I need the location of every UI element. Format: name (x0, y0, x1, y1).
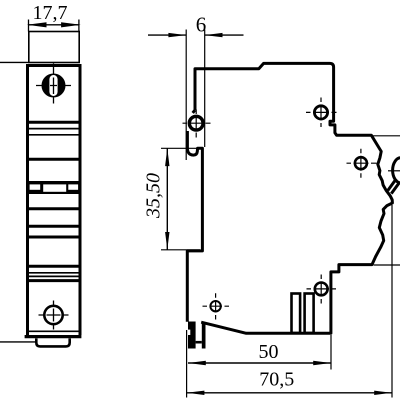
ear screw hole (189, 116, 203, 130)
section line 11 (29, 279, 79, 282)
handle centerline (388, 170, 400, 172)
dimension 70,5 extension right (391, 205, 393, 398)
toggle window middle (43, 184, 66, 191)
DIN clip white notch (185, 330, 190, 335)
top mounting hole (314, 106, 327, 119)
DIN clip latch left bar (188, 322, 196, 349)
dimension 35,50 line (166, 148, 168, 250)
middle hole (355, 157, 367, 169)
wire leader line top-left (0, 61, 28, 63)
section line 4 (29, 158, 79, 161)
dimension 70,5 extension left (186, 330, 188, 398)
section line 8 (29, 265, 79, 268)
dimension 6 arrow right (205, 33, 223, 37)
svg-text:50: 50 (259, 341, 279, 363)
wire leader line bottom-left (0, 341, 37, 343)
section line 7 (29, 236, 79, 239)
top screw centerline horizontal (36, 85, 71, 87)
handle pivot (cut off at edge) (393, 158, 400, 183)
toggle window band (29, 181, 79, 194)
dimension 50 arrow right (313, 361, 331, 365)
dimension 50 line (188, 362, 331, 364)
dimension 50 arrow left (188, 361, 206, 365)
bottom screw centerline horizontal (39, 314, 69, 316)
bottom screw centerline vertical (53, 301, 55, 330)
dimension 6 line left tail (148, 34, 186, 36)
side body main outline (195, 63, 392, 333)
dimension 17,7 arrow left (27, 22, 47, 27)
svg-text:70,5: 70,5 (259, 369, 294, 391)
dimension 35,50 extension bottom (161, 249, 200, 251)
section line 2 (29, 128, 79, 130)
section line 1 (29, 121, 79, 124)
section line 6 (29, 225, 79, 228)
dimension 35,50 arrow down (165, 232, 169, 250)
side body left edge with DIN recess (187, 131, 202, 322)
toggle window right (68, 184, 78, 189)
body bottom thin line (29, 330, 80, 332)
section line 10 (29, 275, 79, 277)
dimension 35,50 extension top (161, 147, 201, 149)
bottom mounting hole (315, 283, 328, 296)
section line 5 (29, 207, 79, 210)
small hole lower-left (210, 301, 220, 311)
bottom flange (25, 335, 82, 338)
top terminal screw (42, 74, 66, 98)
bottom terminal slot 1 (292, 294, 301, 334)
svg-text:35,50: 35,50 (143, 173, 165, 219)
bottom terminal slot 2 (305, 294, 314, 334)
extension line right mid (cut off) (373, 135, 400, 137)
dimension 17,7 arrow right (61, 22, 81, 27)
bottom terminal screw (44, 306, 62, 324)
ear hole centerlines (183, 122, 211, 124)
handle stem (388, 179, 400, 194)
dimension 6 arrow left (168, 33, 186, 37)
dimension 6 line right tail (205, 34, 244, 36)
dimension 70,5 arrow left (187, 391, 205, 395)
mounting foot (36, 338, 69, 346)
toggle window left (30, 184, 41, 189)
dimension 70,5 arrow right (374, 391, 392, 395)
section line 9 (29, 272, 79, 274)
svg-text:6: 6 (196, 12, 207, 36)
breaker top cap (narrow upper part) (29, 32, 79, 63)
dimension 17,7 line (28, 24, 79, 26)
dimension 35,50 arrow up (165, 148, 169, 166)
top screw centerline vertical (53, 64, 55, 104)
DIN clip latch right bar (202, 324, 206, 349)
breaker main body outline (28, 66, 81, 336)
dimension 50 extension right (330, 335, 332, 370)
DIN clip crossbar (196, 341, 202, 344)
svg-text:17,7: 17,7 (33, 2, 68, 24)
dimension 17,7 extension lines (28, 20, 30, 32)
edge into ear circle (193, 110, 195, 113)
dimension 70,5 line (187, 392, 392, 394)
dimension 6 extension lines (185, 30, 187, 161)
section line 3 (29, 134, 79, 136)
extension line right low (cut off) (374, 264, 400, 266)
